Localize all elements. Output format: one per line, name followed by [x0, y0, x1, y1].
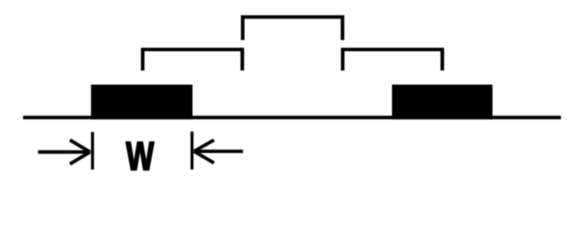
dimension tick right [191, 132, 194, 170]
bracket top (center cell) [243, 17, 343, 40]
label W [126, 142, 154, 170]
ground plane line [23, 116, 561, 120]
bracket left cell [143, 50, 243, 71]
conductor strip left [91, 85, 193, 120]
conductor strip right [392, 85, 493, 120]
dimension arrow right (pointing left) [194, 140, 243, 163]
dimension arrow left (pointing right) [38, 140, 90, 164]
dimension tick left [91, 132, 94, 170]
bracket right cell [343, 50, 443, 71]
